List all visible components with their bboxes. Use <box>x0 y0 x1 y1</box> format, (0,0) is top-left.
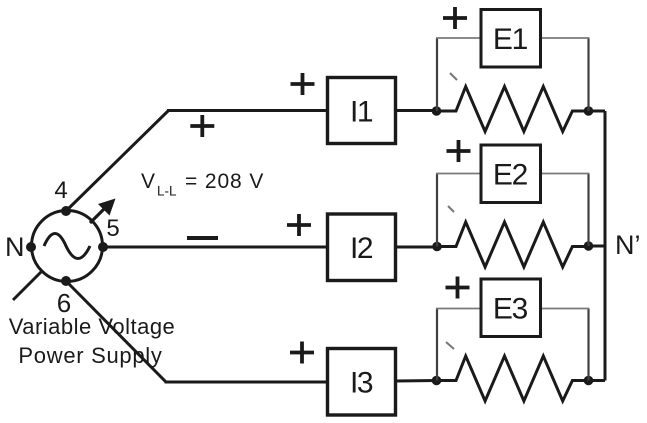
node dot row3 left <box>432 376 442 386</box>
terminal dot 5 <box>98 242 108 252</box>
svg-text:4: 4 <box>54 177 67 204</box>
svg-text:E1: E1 <box>493 23 528 56</box>
wire diagonal from terminal 6 <box>66 281 166 382</box>
voltmeter E3 <box>481 279 541 337</box>
plus sign at E1 <box>443 7 467 29</box>
svg-text:5: 5 <box>106 215 119 242</box>
plus sign above row3 wire <box>290 342 314 364</box>
svg-text:E2: E2 <box>493 159 528 192</box>
svg-text:N’: N’ <box>615 230 641 260</box>
wire I2 to node <box>396 246 438 249</box>
minus sign row2 <box>187 236 218 240</box>
svg-text:I1: I1 <box>350 96 373 129</box>
tick mark row3 <box>446 342 454 349</box>
svg-text:E3: E3 <box>493 293 528 326</box>
plus sign at E2 <box>447 140 471 162</box>
wire node to bus row3 <box>589 379 606 382</box>
wire I3 to node <box>396 379 438 383</box>
voltmeter E2 sense wires <box>437 174 589 247</box>
plus sign at E3 <box>446 277 470 299</box>
wire from N going down-left <box>13 271 42 300</box>
voltmeter E2 <box>481 145 541 203</box>
node dot row1 left <box>432 106 442 116</box>
svg-text:I3: I3 <box>350 367 373 400</box>
ammeter I2 <box>328 214 396 281</box>
voltmeter E1 sense wires <box>437 38 589 111</box>
node dot row1 right <box>584 106 594 116</box>
sine wave inside source <box>44 234 90 259</box>
node dot row2 right <box>584 241 594 251</box>
svg-text:Variable Voltage: Variable Voltage <box>9 314 176 339</box>
terminal dot 4 <box>61 206 71 216</box>
svg-text:N: N <box>5 232 25 262</box>
ammeter I3 <box>328 349 396 416</box>
power supply G1 (variable AC source) <box>32 211 103 282</box>
resistor R2 <box>437 222 589 267</box>
neutral bus wire N' <box>604 111 607 381</box>
node dot row2 left <box>432 242 442 252</box>
wire node to bus row1 <box>589 110 606 113</box>
resistor R3 <box>437 356 589 401</box>
terminal dot 6 <box>61 276 71 286</box>
resistor R1 <box>437 87 589 132</box>
wire row3 horizontal to I3 <box>165 381 328 384</box>
voltmeter E3 sense wires <box>437 309 589 381</box>
wire node to bus row2 <box>589 245 606 248</box>
tick mark row1 <box>450 73 457 80</box>
voltmeter E1 <box>481 10 541 68</box>
wire from terminal 5 to I2 <box>103 246 328 249</box>
tick mark row2 <box>448 206 454 212</box>
plus sign above row1 wire at I1 <box>291 73 315 95</box>
wire diagonal from terminal 4 <box>66 111 169 212</box>
node dot row3 right <box>584 376 594 386</box>
ammeter I1 <box>328 78 396 144</box>
wire I1 to node <box>396 109 437 112</box>
wire row1 horizontal to I1 <box>167 109 328 112</box>
plus sign above row2 wire <box>287 214 311 236</box>
svg-text:I2: I2 <box>350 232 373 265</box>
terminal dot N <box>26 242 36 252</box>
plus sign below row1 wire <box>190 115 214 137</box>
variable-adjust arrow <box>90 199 116 224</box>
